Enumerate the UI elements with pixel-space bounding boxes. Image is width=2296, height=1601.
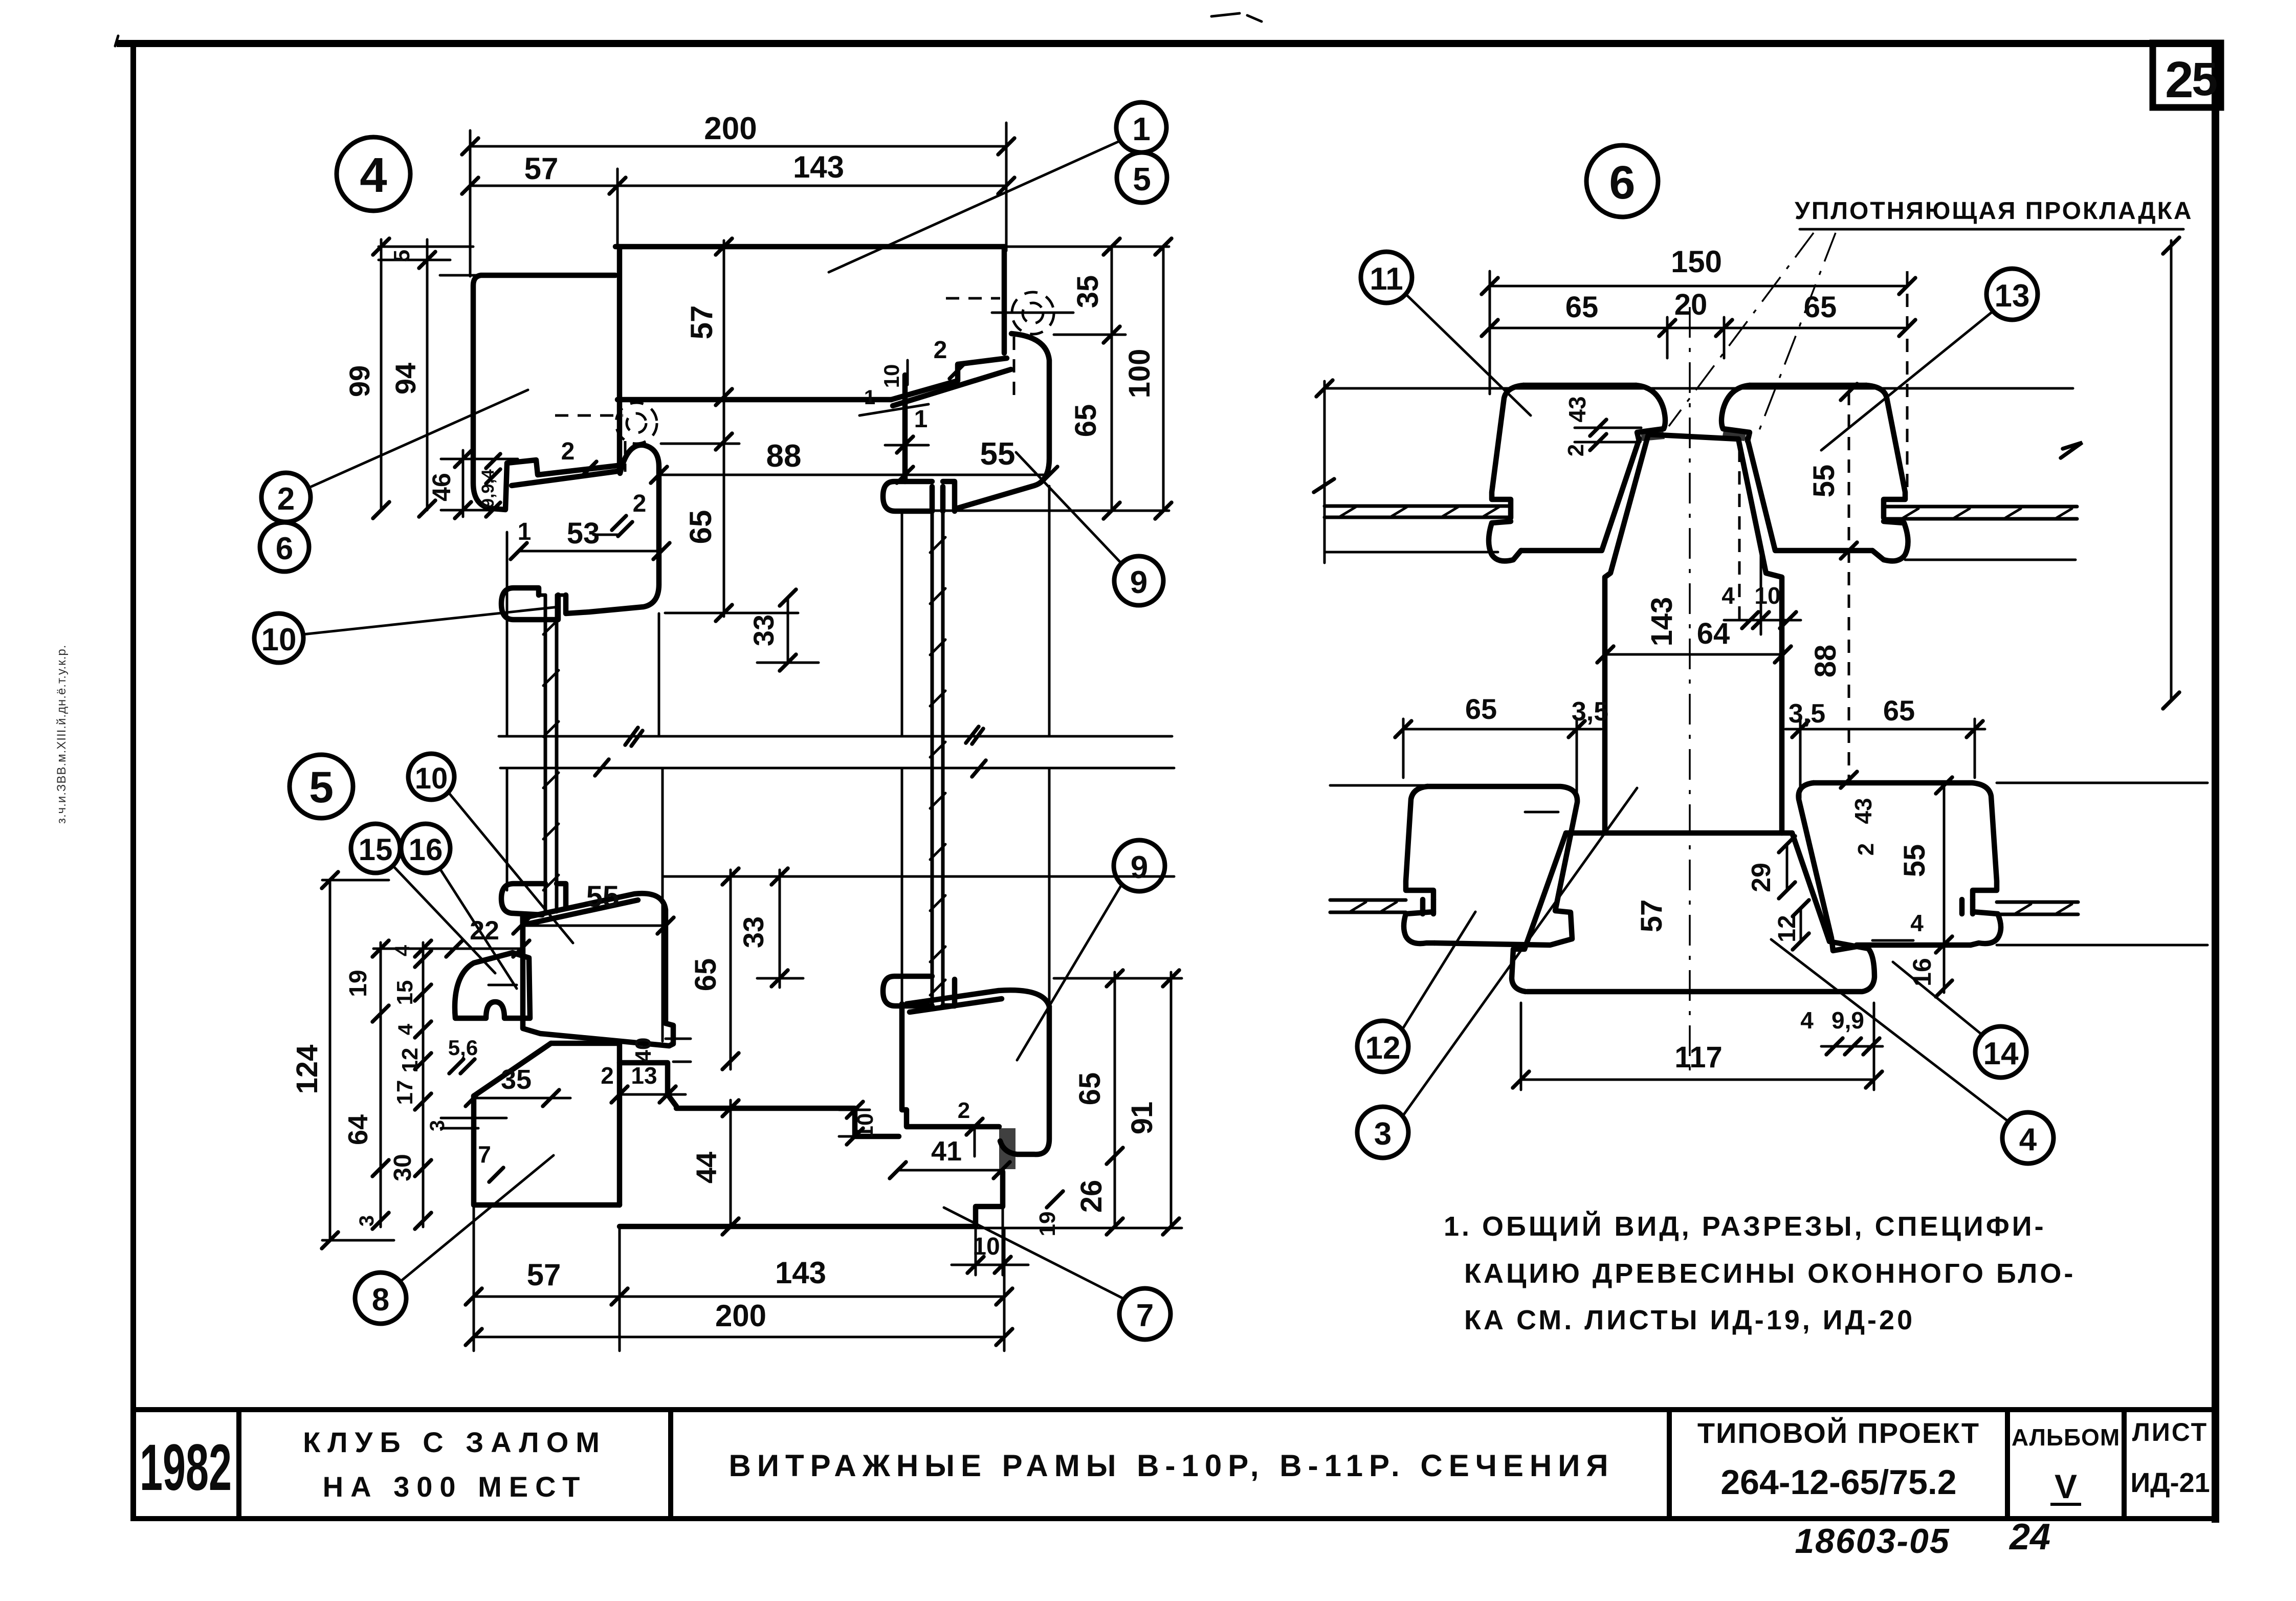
glass panes upper bbox=[1324, 506, 2077, 519]
callouts 11 and 13 bbox=[1361, 252, 1531, 415]
section label circle 6 bbox=[1586, 145, 1658, 217]
svg-text:УПЛОТНЯЮЩАЯ ПРОКЛАДКА: УПЛОТНЯЮЩАЯ ПРОКЛАДКА bbox=[1795, 198, 2193, 225]
dim 33 bbox=[661, 444, 819, 671]
svg-text:19: 19 bbox=[345, 970, 372, 997]
seal hatch patch bbox=[999, 1128, 1015, 1169]
svg-text:10: 10 bbox=[261, 622, 297, 657]
svg-text:29: 29 bbox=[1747, 863, 1776, 892]
svg-text:13: 13 bbox=[631, 1062, 657, 1089]
svg-text:ЛИСТ: ЛИСТ bbox=[2132, 1418, 2208, 1446]
extension verticals through break bbox=[507, 486, 1049, 1041]
svg-text:1: 1 bbox=[914, 406, 928, 433]
svg-text:143: 143 bbox=[1645, 597, 1679, 647]
svg-text:35: 35 bbox=[501, 1064, 532, 1095]
svg-text:5: 5 bbox=[2192, 53, 2218, 105]
46 dim + 9,9,4 bbox=[427, 450, 518, 518]
svg-text:1: 1 bbox=[864, 386, 875, 409]
svg-text:10: 10 bbox=[879, 364, 903, 388]
dim 200 top bbox=[462, 111, 1014, 276]
svg-text:44: 44 bbox=[690, 1152, 722, 1183]
dims 65/3,5 3,5/65 mid bbox=[1395, 693, 1985, 798]
beam bottom-right glazing slants bbox=[891, 358, 1007, 400]
svg-text:15: 15 bbox=[359, 832, 393, 867]
svg-text:НА 300 МЕСТ: НА 300 МЕСТ bbox=[323, 1471, 587, 1503]
svg-text:57: 57 bbox=[524, 151, 559, 186]
dim 53 + 1 + 2 bbox=[507, 490, 670, 563]
svg-text:43: 43 bbox=[1850, 798, 1876, 824]
svg-text:55: 55 bbox=[1898, 844, 1931, 878]
svg-text:4: 4 bbox=[360, 148, 387, 203]
svg-text:41: 41 bbox=[931, 1136, 962, 1167]
left dim chains bbox=[291, 872, 506, 1248]
svg-text:117: 117 bbox=[1674, 1041, 1723, 1074]
svg-text:6: 6 bbox=[276, 531, 293, 566]
page number box bbox=[2153, 43, 2221, 108]
dim 10 bottom bbox=[952, 1207, 1028, 1275]
callout circles 10,15,16 bbox=[408, 754, 573, 943]
svg-text:4: 4 bbox=[1721, 582, 1735, 609]
svg-text:200: 200 bbox=[715, 1299, 766, 1333]
dim 88 / 55 bbox=[651, 436, 1057, 483]
svg-text:150: 150 bbox=[1671, 245, 1722, 279]
dim 10 step bbox=[839, 1102, 878, 1145]
dim 65/33 verticals mid bbox=[663, 868, 1174, 1069]
title block bbox=[133, 1410, 2215, 1561]
svg-text:КЛУБ С ЗАЛОМ: КЛУБ С ЗАЛОМ bbox=[303, 1426, 607, 1458]
svg-text:1: 1 bbox=[518, 518, 532, 545]
svg-text:з.ч.и.ЗВВ.м.ХIII.й.дн.ё.т.у.к.: з.ч.и.ЗВВ.м.ХIII.й.дн.ё.т.у.к.р. bbox=[55, 645, 69, 824]
svg-text:55: 55 bbox=[586, 880, 620, 913]
svg-text:11: 11 bbox=[1370, 261, 1403, 297]
note text bbox=[1444, 1211, 2076, 1335]
svg-text:16: 16 bbox=[409, 832, 443, 867]
break lines bbox=[499, 727, 1174, 777]
svg-text:43: 43 bbox=[1564, 396, 1591, 422]
svg-text:9,9: 9,9 bbox=[1831, 1007, 1864, 1034]
svg-text:65: 65 bbox=[683, 510, 718, 544]
dims 65/26 and 91 right bbox=[976, 970, 1182, 1236]
dim 22 / 55 bbox=[446, 880, 674, 957]
svg-text:65: 65 bbox=[1073, 1072, 1107, 1106]
glass panes between sections bbox=[543, 511, 945, 1006]
svg-text:10: 10 bbox=[415, 762, 448, 795]
svg-text:2: 2 bbox=[1563, 444, 1588, 456]
svg-text:19: 19 bbox=[1035, 1212, 1060, 1237]
right border bbox=[2212, 43, 2219, 1523]
left border bbox=[130, 43, 136, 1520]
svg-text:10: 10 bbox=[1754, 582, 1780, 609]
svg-text:1. ОБЩИЙ ВИД, РАЗРЕЗЫ, СПЕ: 1. ОБЩИЙ ВИД, РАЗРЕЗЫ, СПЕЦИФИ- bbox=[1444, 1211, 2046, 1242]
svg-text:65: 65 bbox=[1069, 404, 1102, 437]
svg-text:12: 12 bbox=[398, 1048, 423, 1073]
svg-text:V: V bbox=[2055, 1467, 2077, 1505]
svg-text:АЛЬБОМ: АЛЬБОМ bbox=[2012, 1424, 2120, 1451]
svg-text:12: 12 bbox=[1365, 1030, 1401, 1066]
svg-text:65: 65 bbox=[1465, 693, 1497, 725]
dim 65/20/65 bbox=[1482, 288, 1915, 358]
svg-text:33: 33 bbox=[747, 615, 780, 646]
svg-text:13: 13 bbox=[1995, 278, 2030, 314]
svg-text:40: 40 bbox=[631, 1038, 656, 1063]
part 1 beam outline bbox=[615, 247, 1169, 469]
part 16 bead profile bbox=[455, 953, 530, 1018]
callout circle 9 right bbox=[1016, 452, 1163, 605]
dim 117 bbox=[1513, 1003, 1882, 1090]
svg-text:9: 9 bbox=[1131, 850, 1148, 885]
center dash-dot line bbox=[1689, 307, 1691, 1077]
svg-text:КА СМ. ЛИСТЫ ИД-19, ИД-20: КА СМ. ЛИСТЫ ИД-19, ИД-20 bbox=[1464, 1305, 1915, 1335]
part 2 head frame outline bbox=[440, 275, 617, 510]
svg-text:8: 8 bbox=[372, 1282, 389, 1318]
svg-text:3: 3 bbox=[426, 1120, 449, 1131]
dim 35 bbox=[466, 1064, 570, 1106]
dims 2 / 13 / 40 bbox=[601, 1038, 691, 1103]
svg-text:33: 33 bbox=[737, 916, 769, 948]
svg-text:2: 2 bbox=[934, 337, 947, 364]
section label circle 5 bbox=[290, 755, 353, 818]
svg-text:3,5: 3,5 bbox=[1789, 699, 1825, 729]
part 11 left frame stile bbox=[1489, 385, 1665, 561]
long reference line y=997 bbox=[893, 510, 1169, 512]
lower: part 12 bbox=[1330, 785, 1577, 945]
svg-text:5: 5 bbox=[309, 763, 334, 812]
dim 4 9,9 bbox=[1800, 1007, 1883, 1055]
callout circles 8, 9, 7 bbox=[355, 1155, 554, 1324]
svg-text:7: 7 bbox=[478, 1141, 491, 1168]
svg-text:9: 9 bbox=[1130, 565, 1147, 600]
svg-text:ВИТРАЖНЫЕ РАМЫ В-10Р, В-11Р. С: ВИТРАЖНЫЕ РАМЫ В-10Р, В-11Р. СЕЧЕНИЯ bbox=[729, 1449, 1615, 1483]
svg-text:65: 65 bbox=[1883, 694, 1915, 727]
svg-text:5: 5 bbox=[1133, 161, 1151, 198]
svg-text:1: 1 bbox=[1132, 111, 1151, 147]
svg-text:55: 55 bbox=[980, 436, 1015, 472]
svg-text:55: 55 bbox=[1807, 465, 1841, 498]
svg-text:30: 30 bbox=[389, 1154, 416, 1181]
svg-text:КАЦИЮ ДРЕВЕСИНЫ ОКОННОГО БЛ: КАЦИЮ ДРЕВЕСИНЫ ОКОННОГО БЛО- bbox=[1464, 1258, 2076, 1289]
svg-text:6: 6 bbox=[1609, 157, 1635, 209]
dim 57/65 vertical at x=1415 bbox=[683, 238, 732, 621]
svg-text:2: 2 bbox=[1853, 843, 1879, 856]
mullion upper bbox=[1605, 434, 1782, 833]
svg-text:91: 91 bbox=[1125, 1102, 1159, 1135]
svg-text:200: 200 bbox=[704, 111, 757, 146]
svg-text:15: 15 bbox=[392, 980, 417, 1005]
svg-text:57: 57 bbox=[527, 1258, 561, 1292]
svg-text:143: 143 bbox=[793, 150, 844, 184]
part 10 sash (left, under beam) bbox=[501, 445, 659, 620]
svg-text:12: 12 bbox=[1774, 915, 1801, 942]
svg-text:2: 2 bbox=[277, 481, 295, 517]
svg-text:4: 4 bbox=[1910, 910, 1924, 936]
svg-text:64: 64 bbox=[1697, 617, 1730, 650]
svg-text:57: 57 bbox=[685, 305, 719, 340]
section label circle 4 bbox=[337, 137, 410, 211]
svg-text:100: 100 bbox=[1123, 349, 1156, 399]
svg-text:4: 4 bbox=[391, 945, 414, 956]
svg-text:3,5: 3,5 bbox=[1572, 697, 1608, 727]
long ref lines bbox=[1324, 387, 2073, 390]
svg-text:18603-05: 18603-05 bbox=[1795, 1522, 1950, 1561]
sill slab bbox=[620, 976, 1049, 1226]
svg-text:46: 46 bbox=[427, 473, 456, 501]
dim 41 / 2 bbox=[890, 1098, 1010, 1178]
dim 44 bbox=[690, 1100, 739, 1235]
svg-text:88: 88 bbox=[1809, 645, 1842, 678]
svg-text:65: 65 bbox=[1804, 291, 1837, 324]
svg-text:2: 2 bbox=[601, 1062, 614, 1089]
svg-text:2: 2 bbox=[958, 1098, 970, 1123]
small dims around part2 bottom: 5 / 99 / 94 chain bbox=[343, 238, 473, 518]
svg-text:1982: 1982 bbox=[140, 1431, 232, 1504]
gasket note bbox=[1669, 198, 2193, 431]
part 9 sash (right) bbox=[883, 334, 1049, 511]
dim 150 bbox=[1482, 245, 1915, 495]
svg-text:65: 65 bbox=[1565, 291, 1599, 324]
svg-text:2: 2 bbox=[2165, 51, 2194, 108]
svg-text:88: 88 bbox=[766, 438, 802, 474]
svg-text:ТИПОВОЙ ПРОЕКТ: ТИПОВОЙ ПРОЕКТ bbox=[1697, 1417, 1980, 1449]
dim 55 / 88 vertical right bbox=[1807, 384, 1857, 788]
glass panes lower bbox=[1330, 783, 2207, 945]
callouts 12,3,14,4 bbox=[1357, 912, 1475, 1072]
gasket hatch patches bbox=[1640, 428, 1665, 441]
svg-text:4: 4 bbox=[2019, 1122, 2037, 1157]
dims lower middle bbox=[1635, 777, 1952, 997]
callout circles 2,6,10 bbox=[261, 390, 528, 522]
svg-text:10: 10 bbox=[973, 1233, 1000, 1260]
part 8 block bbox=[474, 1043, 676, 1205]
hinge left (dashed circles) bbox=[555, 403, 657, 472]
part 10 lower sash bbox=[501, 884, 673, 1046]
svg-text:57: 57 bbox=[1635, 900, 1668, 933]
svg-text:5,6: 5,6 bbox=[448, 1036, 478, 1060]
svg-text:3: 3 bbox=[1374, 1116, 1392, 1152]
svg-text:17: 17 bbox=[392, 1080, 417, 1105]
svg-text:64: 64 bbox=[343, 1114, 373, 1145]
svg-text:26: 26 bbox=[1075, 1180, 1108, 1213]
dims 43 / 2 upper left bbox=[1563, 396, 1641, 456]
svg-text:5: 5 bbox=[389, 250, 414, 262]
dim 57 / 143 bbox=[462, 150, 1014, 247]
svg-text:124: 124 bbox=[291, 1045, 324, 1094]
small stray marks top bbox=[1211, 13, 1262, 21]
svg-text:143: 143 bbox=[775, 1256, 826, 1290]
dims 35 / 65 / 100 right side bbox=[1054, 238, 1172, 519]
svg-text:3: 3 bbox=[356, 1215, 378, 1226]
svg-text:24: 24 bbox=[2008, 1517, 2050, 1558]
part 13 right frame stile bbox=[1721, 385, 1908, 561]
svg-text:ИД-21: ИД-21 bbox=[2130, 1467, 2210, 1498]
svg-text:20: 20 bbox=[1674, 288, 1708, 321]
svg-text:22: 22 bbox=[470, 916, 499, 946]
svg-text:7: 7 bbox=[1136, 1298, 1154, 1333]
right sash bottom rail (part 9 lower) bbox=[902, 1004, 999, 1127]
svg-text:2: 2 bbox=[561, 438, 575, 465]
svg-text:14: 14 bbox=[1983, 1036, 2019, 1071]
svg-text:2: 2 bbox=[633, 490, 647, 517]
svg-text:16: 16 bbox=[1908, 958, 1936, 986]
svg-text:65: 65 bbox=[689, 958, 722, 992]
lower: center sash bottom rail bbox=[1512, 833, 1874, 992]
svg-text:99: 99 bbox=[343, 365, 376, 397]
svg-text:4: 4 bbox=[1800, 1007, 1814, 1034]
dims 4 / 10 small bbox=[1721, 449, 1801, 634]
callout circles 1,5 bbox=[829, 102, 1166, 272]
bottom dims 57/143/200 bbox=[466, 1208, 1012, 1351]
top border bbox=[117, 40, 2219, 47]
lower: part 14 bbox=[1799, 783, 2001, 951]
dims 143 / 64 bbox=[1597, 597, 1791, 663]
svg-text:264-12-65/75.2: 264-12-65/75.2 bbox=[1720, 1463, 1956, 1502]
svg-text:35: 35 bbox=[1071, 275, 1105, 309]
svg-text:94: 94 bbox=[389, 363, 422, 394]
faint vertical scribble left margin bbox=[55, 645, 69, 824]
svg-text:4: 4 bbox=[394, 1023, 417, 1035]
hinge right (dashed circles) bbox=[946, 292, 1073, 400]
